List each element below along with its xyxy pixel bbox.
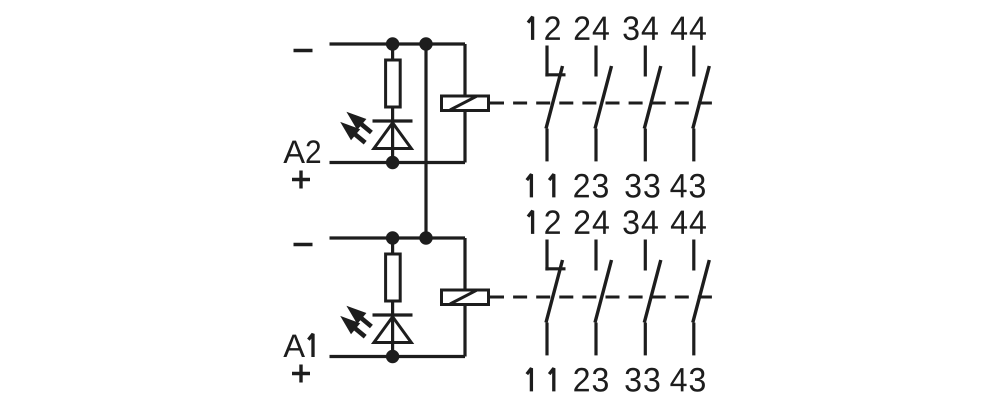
- contact 34/33 (NO make contact): bottom lead: [644, 323, 647, 356]
- terminal label − (A1 channel minus): [294, 243, 313, 246]
- LED D2 cathode bar: [373, 119, 413, 122]
- contact 44/43 (NO make contact): top lead: [692, 46, 695, 77]
- terminal number 43: [670, 174, 686, 197]
- terminal number 11: [527, 368, 532, 391]
- terminal number 24: [575, 16, 590, 40]
- terminal number 33: [625, 368, 640, 392]
- terminal label + (A1 channel plus): [292, 372, 310, 375]
- wire: resistor/LED branch: [391, 238, 394, 357]
- wire: resistor/LED branch: [391, 44, 394, 163]
- junction dot: top wire / link: [419, 37, 432, 50]
- contact 12/11 (NC break contact): top lead: [545, 240, 548, 271]
- contact 34/33 (NO make contact): bottom lead: [644, 129, 647, 162]
- wire: A1 top feed: [330, 236, 466, 239]
- LED D2 light arrow 2: [340, 122, 360, 140]
- terminal number 11: [527, 174, 532, 197]
- terminal label + (A2 channel plus): [292, 178, 310, 181]
- terminal label − (A2 channel minus): [294, 49, 313, 52]
- resistor R1: [386, 254, 401, 301]
- junction dot: bottom wire / LED branch: [386, 350, 399, 363]
- terminal number 12: [528, 211, 533, 234]
- contact 12/11 (NC break contact): movable blade: [546, 260, 563, 323]
- contact 44/43 (NO make contact): top lead: [692, 240, 695, 271]
- LED D1 light arrow 2: [340, 316, 360, 334]
- contact 24/23 (NO make contact): bottom lead: [594, 323, 597, 356]
- contact 24/23 (NO make contact): movable blade: [595, 260, 612, 323]
- LED D2 triangle: [374, 123, 411, 149]
- LED D1 triangle: [374, 317, 411, 343]
- contact 44/43 (NO make contact): movable blade: [693, 260, 710, 323]
- LED D1 cathode bar: [373, 313, 413, 316]
- contact 24/23 (NO make contact): bottom lead: [594, 129, 597, 162]
- terminal number 33: [625, 174, 640, 198]
- relay coil K1 diagonal: [450, 290, 477, 304]
- terminal number 23: [574, 368, 589, 392]
- contact 12/11 (NC break contact): bottom lead: [545, 129, 548, 162]
- wire: A2 bottom return: [330, 161, 466, 164]
- wire: link between channel A2 top feed and channel A1 top feed: [424, 44, 427, 238]
- contact 12/11 NC fixed contact foot: [545, 73, 565, 76]
- wire: A1 bottom return: [330, 355, 466, 358]
- junction dot: top wire / resistor branch: [386, 37, 399, 50]
- terminal number 44: [671, 17, 687, 40]
- junction dot: top wire / link: [419, 231, 432, 244]
- mechanical link (dashed) from coil K1 to contacts: [490, 296, 712, 299]
- terminal number 12: [528, 17, 533, 40]
- contact 34/33 (NO make contact): movable blade: [644, 66, 661, 129]
- junction dot: top wire / resistor branch: [386, 231, 399, 244]
- terminal number 23: [574, 174, 589, 198]
- relay coil K1: [442, 290, 489, 305]
- terminal number 43: [670, 368, 686, 391]
- wire: right branch to coil K2: [463, 44, 466, 163]
- contact 44/43 (NO make contact): bottom lead: [692, 129, 695, 162]
- contact 12/11 (NC break contact): top lead: [545, 46, 548, 77]
- relay coil K2: [442, 96, 489, 111]
- terminal number 34: [623, 16, 638, 40]
- terminal label A1: [283, 335, 305, 357]
- LED D2 light arrow 1: [346, 112, 366, 130]
- resistor R2: [386, 60, 401, 107]
- contact 12/11 NC fixed contact foot: [545, 267, 565, 270]
- contact 24/23 (NO make contact): movable blade: [595, 66, 612, 129]
- terminal number 44: [671, 211, 687, 234]
- contact 44/43 (NO make contact): bottom lead: [692, 323, 695, 356]
- contact 24/23 (NO make contact): top lead: [594, 46, 597, 77]
- contact 34/33 (NO make contact): top lead: [644, 240, 647, 271]
- wire: A2 top feed: [330, 42, 466, 45]
- wire: right branch to coil K1: [463, 238, 466, 357]
- contact 12/11 (NC break contact): bottom lead: [545, 323, 548, 356]
- terminal label A2: [283, 141, 305, 163]
- LED D1 light arrow 1: [346, 306, 366, 324]
- relay coil K2 diagonal: [450, 96, 477, 110]
- contact 12/11 (NC break contact): movable blade: [546, 66, 563, 129]
- contact 44/43 (NO make contact): movable blade: [693, 66, 710, 129]
- terminal number 24: [575, 210, 590, 234]
- terminal number 34: [623, 210, 638, 234]
- junction dot: bottom wire / LED branch: [386, 156, 399, 169]
- mechanical link (dashed) from coil K2 to contacts: [490, 102, 712, 105]
- contact 34/33 (NO make contact): top lead: [644, 46, 647, 77]
- contact 34/33 (NO make contact): movable blade: [644, 260, 661, 323]
- contact 24/23 (NO make contact): top lead: [594, 240, 597, 271]
